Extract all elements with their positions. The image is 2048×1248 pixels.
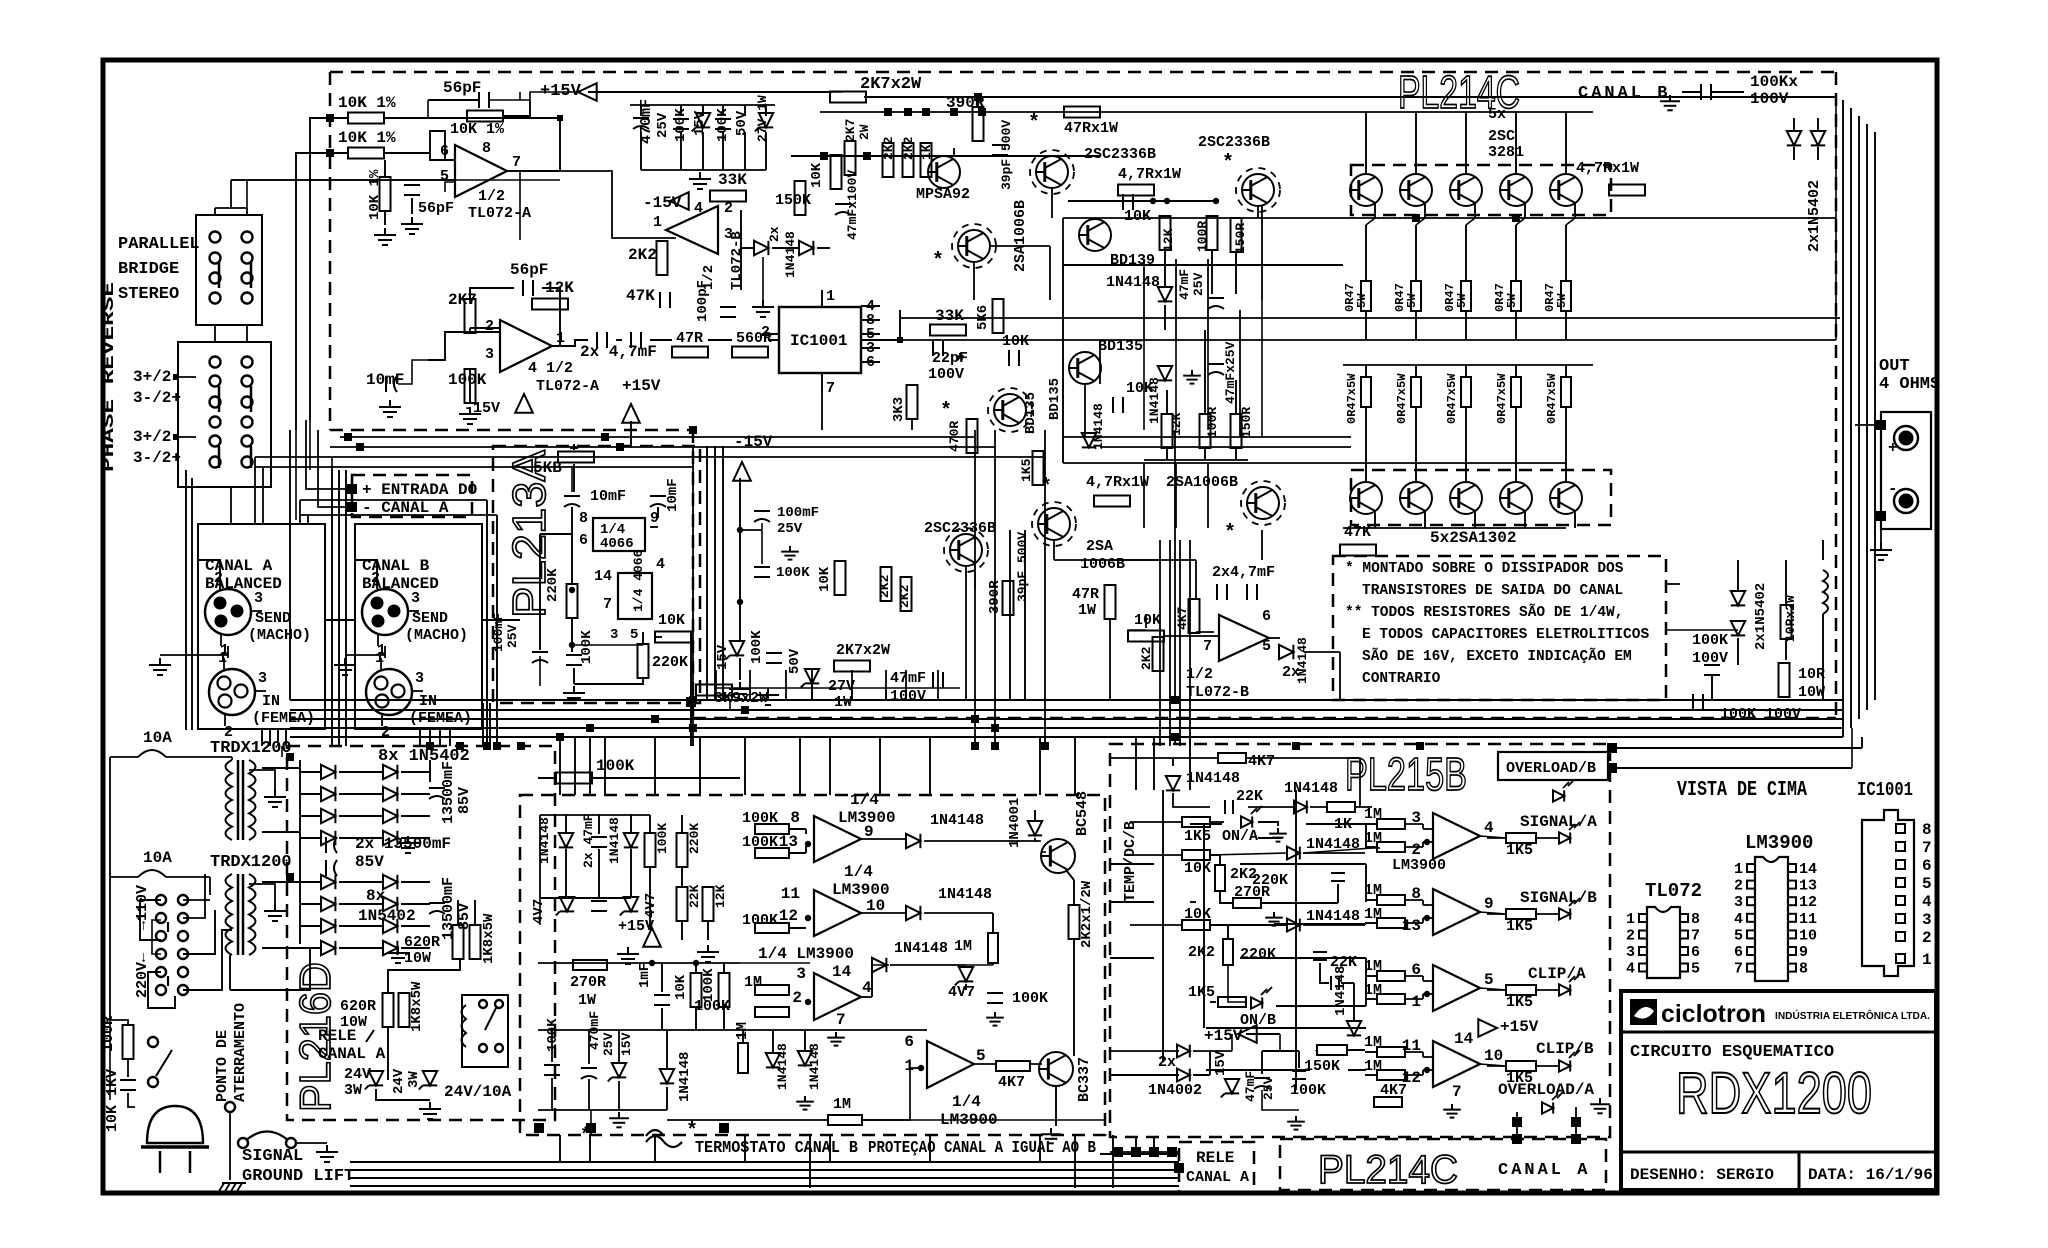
svg-text:1: 1 xyxy=(218,650,227,667)
svg-text:100K: 100K xyxy=(579,630,595,664)
svg-text:1W: 1W xyxy=(1078,602,1096,619)
svg-text:5W: 5W xyxy=(1355,293,1369,308)
svg-text:7: 7 xyxy=(603,596,612,613)
svg-text:3: 3 xyxy=(415,670,424,687)
svg-text:7: 7 xyxy=(836,1011,846,1029)
svg-text:RELE: RELE xyxy=(1196,1149,1234,1167)
svg-text:100K: 100K xyxy=(701,968,717,1002)
svg-text:100mF: 100mF xyxy=(491,613,506,652)
svg-text:8: 8 xyxy=(579,510,588,527)
svg-text:100K: 100K xyxy=(1012,990,1048,1007)
svg-text:1/4 LM3900: 1/4 LM3900 xyxy=(758,945,854,963)
svg-text:1N4148: 1N4148 xyxy=(938,886,992,903)
svg-text:100K: 100K xyxy=(545,1018,561,1052)
svg-text:4K7: 4K7 xyxy=(998,1074,1025,1091)
svg-text:10K: 10K xyxy=(817,566,833,592)
svg-text:2K2: 2K2 xyxy=(628,246,657,264)
svg-text:SÃO DE 16V, EXCETO INDICAÇÃO E: SÃO DE 16V, EXCETO INDICAÇÃO EM xyxy=(1362,647,1632,665)
svg-text:2: 2 xyxy=(214,570,223,587)
svg-text:1N4148: 1N4148 xyxy=(1147,377,1162,424)
svg-text:2SA: 2SA xyxy=(1086,538,1113,555)
svg-text:TL072: TL072 xyxy=(1645,880,1702,902)
svg-text:0R47x5W: 0R47x5W xyxy=(1445,373,1459,424)
svg-text:-: - xyxy=(1888,480,1898,498)
svg-text:56pF: 56pF xyxy=(418,200,454,217)
svg-text:10K 1%: 10K 1% xyxy=(338,94,396,112)
svg-text:1: 1 xyxy=(1411,993,1421,1011)
svg-text:7: 7 xyxy=(1691,928,1700,945)
svg-text:1W: 1W xyxy=(834,694,852,711)
svg-text:*: * xyxy=(932,250,944,273)
svg-text:1K5: 1K5 xyxy=(1184,828,1211,845)
svg-text:5W: 5W xyxy=(1505,293,1519,308)
svg-text:1N4148: 1N4148 xyxy=(1091,403,1106,450)
svg-text:12: 12 xyxy=(1402,1069,1421,1087)
svg-text:CONTRARIO: CONTRARIO xyxy=(1362,671,1441,687)
svg-text:CANAL A: CANAL A xyxy=(1186,1169,1249,1186)
svg-text:100K: 100K xyxy=(596,757,635,775)
svg-text:2: 2 xyxy=(792,989,802,1007)
svg-text:39pF 500V: 39pF 500V xyxy=(1015,532,1030,602)
svg-text:3W: 3W xyxy=(406,1071,422,1088)
svg-text:PL215B: PL215B xyxy=(1345,748,1467,800)
svg-text:8: 8 xyxy=(1691,911,1700,928)
svg-text:IC1001: IC1001 xyxy=(1857,779,1913,801)
svg-text:4V7: 4V7 xyxy=(531,899,547,924)
svg-text:SIGNAL/B: SIGNAL/B xyxy=(1520,889,1597,907)
svg-text:100K: 100K xyxy=(742,834,778,851)
svg-text:2: 2 xyxy=(371,570,380,587)
svg-text:1N4148: 1N4148 xyxy=(930,812,984,829)
svg-text:LM3900: LM3900 xyxy=(1745,832,1813,854)
svg-text:INDÚSTRIA ELETRÔNICA LTDA.: INDÚSTRIA ELETRÔNICA LTDA. xyxy=(1775,1009,1930,1022)
svg-text:*: * xyxy=(954,352,966,375)
svg-text:22K: 22K xyxy=(687,884,702,908)
svg-text:1006B: 1006B xyxy=(1080,556,1125,573)
svg-text:4,7Rx1W: 4,7Rx1W xyxy=(1118,166,1181,183)
svg-text:5: 5 xyxy=(1262,638,1271,655)
svg-text:TRDX1200: TRDX1200 xyxy=(210,739,292,758)
svg-text:ON/A: ON/A xyxy=(1222,828,1258,845)
svg-text:9: 9 xyxy=(1799,944,1808,961)
svg-text:10K: 10K xyxy=(658,612,685,629)
svg-text:IN: IN xyxy=(419,693,437,710)
svg-text:5W: 5W xyxy=(1405,293,1419,308)
svg-text:1/4: 1/4 xyxy=(850,791,879,809)
svg-text:2: 2 xyxy=(1734,878,1743,895)
svg-text:3: 3 xyxy=(796,965,806,983)
svg-text:3: 3 xyxy=(1626,944,1635,961)
svg-text:13: 13 xyxy=(1402,917,1421,935)
svg-text:25V: 25V xyxy=(1191,272,1206,296)
svg-text:10K: 10K xyxy=(1002,333,1029,350)
svg-text:10K: 10K xyxy=(1124,208,1151,225)
svg-text:85V: 85V xyxy=(355,853,384,871)
svg-text:6: 6 xyxy=(1262,608,1271,625)
svg-text:100Kx: 100Kx xyxy=(1750,73,1798,91)
svg-text:ATERRAMENTO: ATERRAMENTO xyxy=(232,1003,249,1102)
svg-text:MPSA92: MPSA92 xyxy=(916,186,970,203)
svg-text:1: 1 xyxy=(1922,951,1932,969)
svg-text:1K5: 1K5 xyxy=(1506,994,1533,1011)
svg-text:85V: 85V xyxy=(456,787,473,814)
svg-text:2x 47mF: 2x 47mF xyxy=(581,813,596,868)
svg-text:TL072-B: TL072-B xyxy=(729,231,745,290)
svg-text:3-/2+: 3-/2+ xyxy=(133,389,181,407)
svg-text:270R: 270R xyxy=(570,974,606,991)
svg-text:24V: 24V xyxy=(344,1066,371,1083)
svg-text:SIGNAL: SIGNAL xyxy=(242,1147,303,1166)
svg-text:CANAL A: CANAL A xyxy=(1498,1161,1590,1180)
svg-text:3: 3 xyxy=(1734,894,1743,911)
svg-text:33K: 33K xyxy=(718,171,747,189)
svg-text:CANAL B: CANAL B xyxy=(1578,84,1670,103)
svg-text:4066: 4066 xyxy=(600,536,634,552)
svg-text:TL072-A: TL072-A xyxy=(536,378,599,395)
svg-text:10K: 10K xyxy=(1184,860,1211,877)
svg-text:6: 6 xyxy=(1922,857,1932,875)
svg-text:10: 10 xyxy=(1799,927,1817,944)
svg-text:BRIDGE: BRIDGE xyxy=(118,260,179,279)
svg-text:1N4148: 1N4148 xyxy=(1186,770,1240,787)
svg-text:1M: 1M xyxy=(833,1096,851,1113)
svg-text:47mF: 47mF xyxy=(1243,1071,1258,1102)
svg-text:1N4148: 1N4148 xyxy=(607,817,622,864)
svg-text:TERMOSTATO CANAL B: TERMOSTATO CANAL B xyxy=(695,1139,858,1158)
svg-text:10K: 10K xyxy=(1134,612,1161,629)
svg-text:5: 5 xyxy=(630,627,638,643)
svg-text:10K: 10K xyxy=(809,162,825,188)
svg-text:10K: 10K xyxy=(1184,906,1211,923)
svg-text:PL214C: PL214C xyxy=(1318,1148,1458,1192)
svg-text:1: 1 xyxy=(1626,911,1635,928)
svg-text:47R: 47R xyxy=(1072,586,1099,603)
svg-text:1K5: 1K5 xyxy=(1506,842,1533,859)
svg-text:*: * xyxy=(1040,476,1052,499)
svg-text:11: 11 xyxy=(1799,911,1817,928)
svg-text:2W: 2W xyxy=(857,124,872,140)
svg-text:10mF: 10mF xyxy=(590,488,626,505)
svg-text:10K 1KV: 10K 1KV xyxy=(104,1069,121,1132)
svg-text:STEREO: STEREO xyxy=(118,285,179,304)
svg-text:100V: 100V xyxy=(890,688,926,705)
svg-text:IC1001: IC1001 xyxy=(790,332,848,350)
svg-text:GROUND LIFT: GROUND LIFT xyxy=(242,1167,354,1186)
svg-text:CLIP/A: CLIP/A xyxy=(1528,965,1586,983)
svg-text:0R47x5W: 0R47x5W xyxy=(1395,373,1409,424)
svg-text:(MACHO): (MACHO) xyxy=(405,627,468,644)
svg-text:-15V: -15V xyxy=(734,433,773,451)
svg-text:1K8x5W: 1K8x5W xyxy=(481,913,497,964)
svg-text:5: 5 xyxy=(976,1047,986,1065)
svg-text:13500mF: 13500mF xyxy=(440,761,457,824)
svg-text:7: 7 xyxy=(1452,1083,1462,1101)
svg-text:7: 7 xyxy=(1922,839,1932,857)
svg-text:14: 14 xyxy=(1454,1030,1474,1048)
svg-text:2SC: 2SC xyxy=(1488,128,1515,145)
svg-text:1W: 1W xyxy=(578,992,596,1009)
svg-text:4: 4 xyxy=(1734,911,1743,928)
svg-text:1M: 1M xyxy=(1364,1034,1382,1051)
svg-text:PONTO DE: PONTO DE xyxy=(214,1030,231,1102)
svg-text:CANAL A: CANAL A xyxy=(318,1045,386,1063)
svg-text:1M: 1M xyxy=(1364,906,1382,923)
svg-text:3281: 3281 xyxy=(1488,144,1524,161)
svg-text:4: 4 xyxy=(1626,961,1635,978)
svg-text:*: * xyxy=(1028,112,1040,135)
svg-text:14: 14 xyxy=(832,963,852,981)
svg-text:5W: 5W xyxy=(1455,293,1469,308)
svg-text:27V: 27V xyxy=(828,678,855,695)
svg-text:47Rx1W: 47Rx1W xyxy=(1064,120,1118,137)
svg-text:50V: 50V xyxy=(734,110,750,136)
svg-text:E TODOS CAPACITORES ELETROLITI: E TODOS CAPACITORES ELETROLITICOS xyxy=(1362,627,1649,643)
svg-text:2K2: 2K2 xyxy=(877,574,892,598)
svg-text:5x: 5x xyxy=(1488,106,1506,123)
svg-text:620R: 620R xyxy=(340,998,376,1015)
svg-text:560R: 560R xyxy=(736,330,772,347)
svg-text:1: 1 xyxy=(653,214,662,231)
svg-text:DESENHO: SERGIO: DESENHO: SERGIO xyxy=(1630,1166,1774,1184)
svg-text:TRANSISTORES DE SAIDA DO CAN: TRANSISTORES DE SAIDA DO CANAL xyxy=(1362,583,1623,599)
svg-text:14: 14 xyxy=(594,568,612,585)
svg-text:56pF: 56pF xyxy=(443,79,481,97)
svg-text:220K: 220K xyxy=(545,568,561,602)
svg-text:1M: 1M xyxy=(954,938,972,955)
svg-text:1M: 1M xyxy=(744,974,762,991)
svg-text:2SA1006B: 2SA1006B xyxy=(1012,200,1029,272)
svg-text:25V: 25V xyxy=(505,624,520,648)
svg-text:25V: 25V xyxy=(601,1032,616,1056)
svg-text:47mF: 47mF xyxy=(1177,269,1192,300)
svg-text:3: 3 xyxy=(411,590,420,607)
svg-text:2SC2336B: 2SC2336B xyxy=(1198,134,1270,151)
svg-text:BC337: BC337 xyxy=(1076,1057,1093,1102)
svg-text:+ ENTRADA DO: + ENTRADA DO xyxy=(362,481,478,499)
svg-text:100K 100V: 100K 100V xyxy=(1720,706,1801,723)
svg-text:47K: 47K xyxy=(626,287,655,305)
svg-text:+: + xyxy=(1888,439,1898,457)
svg-text:(MACHO): (MACHO) xyxy=(248,627,311,644)
svg-text:24V/10A: 24V/10A xyxy=(444,1083,512,1101)
svg-text:1/4: 1/4 xyxy=(844,863,873,881)
svg-text:50V: 50V xyxy=(787,648,803,674)
svg-text:5W: 5W xyxy=(1555,293,1569,308)
svg-text:1N4001: 1N4001 xyxy=(1007,798,1023,848)
svg-text:1N4148: 1N4148 xyxy=(783,231,798,278)
svg-text:2: 2 xyxy=(724,200,733,217)
svg-text:12: 12 xyxy=(1799,894,1817,911)
svg-text:7: 7 xyxy=(826,380,835,397)
svg-text:1K5: 1K5 xyxy=(1188,984,1215,1001)
svg-text:1/4: 1/4 xyxy=(952,1093,981,1111)
svg-text:6: 6 xyxy=(904,1033,914,1051)
svg-text:RELE: RELE xyxy=(318,1027,356,1045)
svg-text:** TODOS RESISTORES SÃO DE: ** TODOS RESISTORES SÃO DE 1/4W, xyxy=(1345,603,1623,621)
svg-text:ciclotron: ciclotron xyxy=(1661,1000,1766,1028)
svg-text:* MONTADO SOBRE O DISSIPADOR D: * MONTADO SOBRE O DISSIPADOR DOS xyxy=(1345,561,1624,577)
svg-text:3: 3 xyxy=(258,670,267,687)
svg-text:1N4148: 1N4148 xyxy=(1106,274,1160,291)
svg-text:1K8x5W: 1K8x5W xyxy=(409,981,425,1032)
svg-text:+15V: +15V xyxy=(1500,1018,1539,1036)
svg-text:8: 8 xyxy=(790,809,800,827)
svg-text:270R: 270R xyxy=(1234,884,1270,901)
svg-text:OUT: OUT xyxy=(1879,357,1910,376)
svg-text:BD135: BD135 xyxy=(1047,378,1063,420)
svg-text:SEND: SEND xyxy=(255,610,291,627)
svg-text:220K: 220K xyxy=(1240,946,1276,963)
svg-text:2: 2 xyxy=(1626,928,1635,945)
svg-text:4: 4 xyxy=(656,556,665,573)
svg-text:15V: 15V xyxy=(619,1032,634,1056)
svg-text:*: * xyxy=(940,400,952,423)
svg-text:1K5: 1K5 xyxy=(1506,918,1533,935)
svg-text:SIGNAL/A: SIGNAL/A xyxy=(1520,813,1597,831)
svg-text:12K: 12K xyxy=(713,884,728,908)
svg-text:150K: 150K xyxy=(1304,1058,1340,1075)
svg-text:25V: 25V xyxy=(655,112,671,138)
svg-text:*: * xyxy=(1224,522,1236,545)
svg-text:2x1N5402: 2x1N5402 xyxy=(1753,583,1769,650)
svg-text:*: * xyxy=(1222,152,1234,175)
svg-text:4,7Rx1W: 4,7Rx1W xyxy=(1576,160,1639,177)
svg-text:24V: 24V xyxy=(391,1068,407,1094)
svg-text:CIRCUITO ESQUEMATICO: CIRCUITO ESQUEMATICO xyxy=(1630,1043,1834,1062)
svg-text:100K: 100K xyxy=(448,371,487,389)
svg-text:4: 4 xyxy=(1484,819,1494,837)
svg-text:TL072-B: TL072-B xyxy=(1186,684,1249,701)
svg-text:4V7: 4V7 xyxy=(948,984,975,1001)
svg-text:ON/B: ON/B xyxy=(1240,1012,1276,1029)
svg-text:220K: 220K xyxy=(652,654,688,671)
svg-text:10W: 10W xyxy=(404,950,431,967)
svg-text:10: 10 xyxy=(1484,1047,1503,1065)
svg-text:100K: 100K xyxy=(1692,632,1728,649)
svg-text:100K: 100K xyxy=(742,912,778,929)
svg-text:4 1/2: 4 1/2 xyxy=(528,360,573,377)
svg-text:DATA: 16/1/96: DATA: 16/1/96 xyxy=(1808,1166,1933,1184)
svg-text:3K3: 3K3 xyxy=(891,397,907,422)
svg-text:8: 8 xyxy=(1922,821,1932,839)
svg-text:1: 1 xyxy=(826,288,835,305)
svg-text:8: 8 xyxy=(1799,961,1808,978)
svg-text:620R: 620R xyxy=(404,934,440,951)
svg-text:14: 14 xyxy=(1799,861,1817,878)
svg-text:2K2: 2K2 xyxy=(897,584,912,608)
svg-text:3-/2+: 3-/2+ xyxy=(133,449,181,467)
svg-text:7: 7 xyxy=(1734,961,1743,978)
svg-text:1M: 1M xyxy=(1364,806,1382,823)
svg-text:4: 4 xyxy=(694,200,703,217)
svg-text:2K2x1/2W: 2K2x1/2W xyxy=(1079,880,1095,948)
svg-text:0R47x5W: 0R47x5W xyxy=(1495,373,1509,424)
svg-text:4K7: 4K7 xyxy=(1248,753,1275,770)
svg-text:1N4148: 1N4148 xyxy=(1284,780,1338,797)
svg-text:33K: 33K xyxy=(935,307,964,325)
svg-text:1: 1 xyxy=(375,650,384,667)
svg-text:0R47x5W: 0R47x5W xyxy=(1345,373,1359,424)
svg-text:56pF: 56pF xyxy=(510,261,548,279)
svg-text:RDX1200: RDX1200 xyxy=(1676,1061,1872,1126)
svg-text:6: 6 xyxy=(1734,944,1743,961)
svg-text:5x2SA1302: 5x2SA1302 xyxy=(1430,529,1516,547)
svg-text:OVERLOAD/A: OVERLOAD/A xyxy=(1498,1081,1594,1099)
svg-text:1N4002: 1N4002 xyxy=(1148,1082,1202,1099)
svg-text:2K7: 2K7 xyxy=(843,119,858,142)
svg-text:3W: 3W xyxy=(344,1082,362,1099)
svg-text:1/2: 1/2 xyxy=(478,188,505,205)
svg-text:2: 2 xyxy=(1922,929,1932,947)
svg-text:8: 8 xyxy=(482,140,491,157)
svg-text:2SC2336B: 2SC2336B xyxy=(1084,146,1156,163)
svg-text:→110V: →110V xyxy=(134,885,151,930)
svg-text:10R: 10R xyxy=(1798,666,1825,683)
svg-text:2K7x2W: 2K7x2W xyxy=(860,75,922,94)
svg-text:CLIP/B: CLIP/B xyxy=(1536,1040,1594,1058)
svg-text:100K: 100K xyxy=(655,823,670,854)
svg-text:0R47x5W: 0R47x5W xyxy=(1545,373,1559,424)
svg-text:10K: 10K xyxy=(673,974,689,1000)
svg-text:BD139: BD139 xyxy=(1110,252,1155,269)
svg-text:PARALLEL: PARALLEL xyxy=(118,235,200,254)
svg-text:VISTA DE CIMA: VISTA DE CIMA xyxy=(1677,779,1807,802)
svg-text:1N4148: 1N4148 xyxy=(894,940,948,957)
svg-text:10mF: 10mF xyxy=(665,478,681,512)
svg-text:1N4148: 1N4148 xyxy=(1295,637,1310,684)
svg-text:5: 5 xyxy=(1691,961,1700,978)
svg-text:1N4148: 1N4148 xyxy=(677,1052,693,1102)
svg-text:2x1N5402: 2x1N5402 xyxy=(1806,180,1823,252)
svg-text:3: 3 xyxy=(485,346,494,363)
svg-text:4: 4 xyxy=(862,979,872,997)
svg-text:100R: 100R xyxy=(100,1016,117,1052)
svg-text:9: 9 xyxy=(1484,895,1494,913)
svg-text:100K: 100K xyxy=(776,565,810,581)
svg-text:TRDX1200: TRDX1200 xyxy=(210,853,292,872)
svg-text:4,7Rx1W: 4,7Rx1W xyxy=(1086,474,1149,491)
svg-text:5: 5 xyxy=(1734,927,1743,944)
svg-text:4 OHMS: 4 OHMS xyxy=(1879,375,1940,394)
svg-text:5: 5 xyxy=(1922,875,1932,893)
svg-text:25V: 25V xyxy=(777,521,803,537)
svg-text:4V7: 4V7 xyxy=(643,893,659,918)
svg-text:1M: 1M xyxy=(1364,1058,1382,1075)
svg-text:100V: 100V xyxy=(1750,90,1789,108)
svg-text:TEMP/DC/B: TEMP/DC/B xyxy=(1122,821,1139,902)
svg-text:15V: 15V xyxy=(1213,1050,1229,1076)
svg-text:3: 3 xyxy=(610,627,618,643)
svg-text:7: 7 xyxy=(1203,638,1212,655)
svg-text:3: 3 xyxy=(1922,911,1932,929)
svg-text:100pF: 100pF xyxy=(695,280,711,322)
svg-text:2x: 2x xyxy=(767,226,782,242)
svg-text:+15V: +15V xyxy=(618,918,654,935)
svg-text:220K: 220K xyxy=(687,823,702,854)
svg-text:6: 6 xyxy=(579,532,588,549)
svg-text:PHASE REVERSE: PHASE REVERSE xyxy=(100,282,119,472)
svg-text:22K: 22K xyxy=(1236,788,1263,805)
svg-text:OVERLOAD/B: OVERLOAD/B xyxy=(1506,760,1596,777)
svg-text:47R: 47R xyxy=(676,330,703,347)
svg-text:10W: 10W xyxy=(1798,684,1825,701)
svg-text:LM3900: LM3900 xyxy=(1392,857,1446,874)
svg-text:+15V: +15V xyxy=(1204,1027,1243,1045)
svg-text:4: 4 xyxy=(1922,893,1932,911)
svg-text:1N4148: 1N4148 xyxy=(1333,966,1349,1016)
svg-text:+15V: +15V xyxy=(622,377,661,395)
svg-text:*: * xyxy=(686,1120,698,1143)
